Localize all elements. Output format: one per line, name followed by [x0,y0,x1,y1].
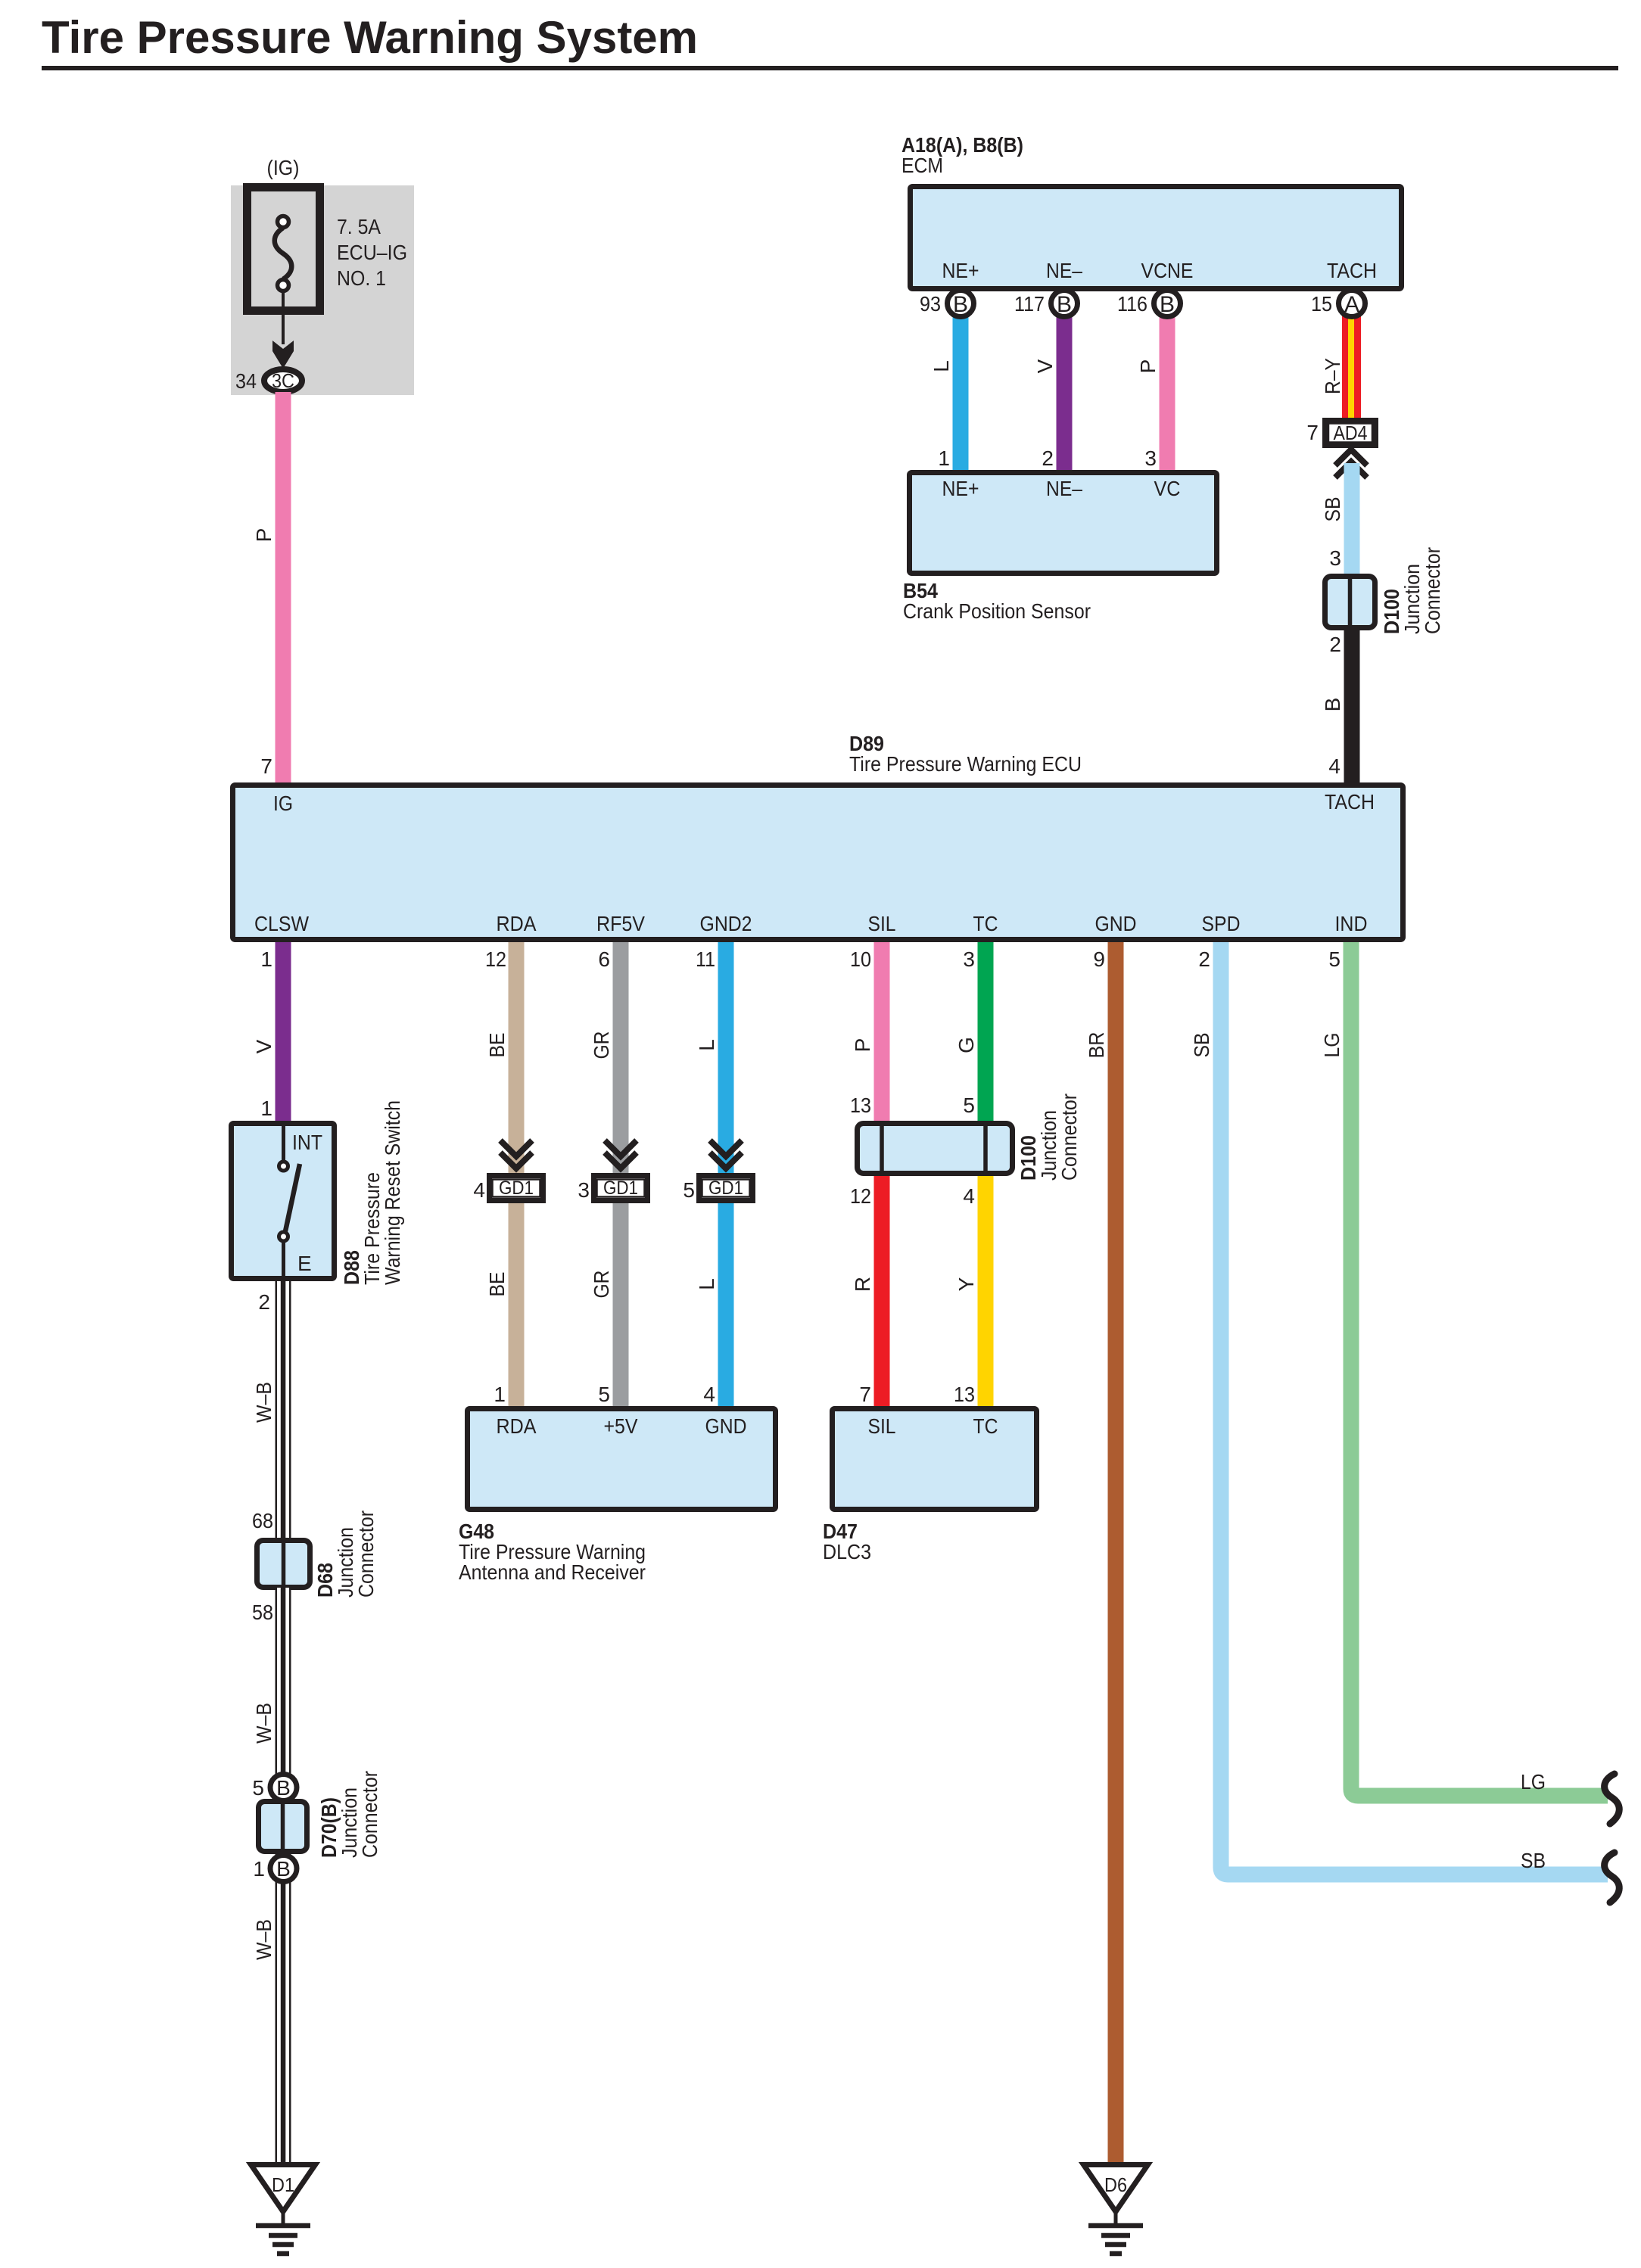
svg-text:W–B: W–B [252,1703,276,1744]
svg-text:11: 11 [696,947,715,971]
svg-text:1: 1 [938,446,950,470]
arrow into 3C [272,341,294,369]
svg-text:68: 68 [252,1509,273,1532]
svg-text:1: 1 [260,1097,272,1120]
svg-text:R: R [851,1277,874,1292]
svg-text:GND: GND [1095,912,1137,935]
svg-text:2: 2 [1198,947,1210,971]
fuse 7.5A ECU-IG NO.1 body [248,188,320,311]
wire BE from D89 RDA to G48 [509,938,525,1409]
wire R-Y from ECM TACH to AD4 [1342,303,1361,419]
svg-text:6: 6 [598,947,610,971]
wire V from D89 CLSW to D88 [276,938,291,1124]
svg-text:4: 4 [703,1383,715,1406]
svg-text:NE+: NE+ [942,477,979,500]
svg-text:SB: SB [1190,1033,1213,1058]
wire R from D100 to D47 SIL [874,1173,890,1409]
svg-text:TC: TC [973,1414,998,1438]
svg-text:CLSW: CLSW [254,912,310,935]
svg-text:P: P [851,1038,874,1053]
svg-text:2: 2 [1329,633,1341,656]
svg-text:SIL: SIL [868,1414,896,1438]
svg-text:IND: IND [1335,912,1368,935]
svg-text:B: B [276,1857,291,1881]
wire P from 3C to D89 pin 7 [276,392,291,787]
svg-text:V: V [1033,359,1057,373]
wire BR from D89 GND to D6 [1108,938,1124,2165]
wire from fuse to connector 3C [282,291,285,345]
junction arrows to GD1 (RF5V) [605,1140,637,1156]
fuse element terminals [278,216,289,228]
wire Y from D100 to D47 TC [978,1173,994,1409]
wire SB from D89 SPD to right edge [1221,938,1608,1874]
svg-text:RF5V: RF5V [596,912,645,935]
svg-text:3C: 3C [272,369,294,392]
switch contact E [279,1232,288,1241]
svg-text:P: P [1136,359,1160,374]
wire B from D100 to D89 TACH [1344,628,1360,787]
svg-text:ECU–IG: ECU–IG [337,241,407,264]
svg-text:3: 3 [1144,446,1157,470]
svg-text:TC: TC [973,912,998,935]
svg-text:B: B [276,1776,291,1800]
svg-text:VCNE: VCNE [1141,259,1194,282]
svg-text:L: L [695,1039,718,1051]
svg-text:INT: INT [292,1131,322,1154]
svg-text:4: 4 [473,1178,485,1202]
svg-text:1: 1 [253,1857,265,1881]
svg-text:58: 58 [252,1601,273,1624]
svg-text:3: 3 [578,1178,590,1202]
wire LG from D89 IND to right edge [1351,938,1608,1796]
svg-text:GND2: GND2 [700,912,752,935]
svg-text:4: 4 [963,1184,975,1208]
svg-text:7: 7 [260,754,272,778]
svg-text:GND: GND [705,1414,747,1438]
svg-text:W–B: W–B [252,1919,276,1960]
svg-text:12: 12 [485,947,506,971]
svg-text:BE: BE [485,1033,509,1058]
svg-text:NE–: NE– [1046,477,1082,500]
svg-text:NE+: NE+ [942,259,979,282]
svg-text:IG: IG [273,792,293,815]
svg-text:93: 93 [920,292,941,316]
svg-text:L: L [695,1278,718,1290]
svg-text:GR: GR [590,1031,613,1059]
wire W-B from D88 to D68 [276,1281,291,1541]
svg-text:B: B [1160,292,1175,317]
svg-text:3: 3 [1329,546,1341,570]
svg-text:(IG): (IG) [267,156,300,179]
wire W-B from D68 to D1 [276,1588,291,2165]
svg-text:SIL: SIL [868,912,896,935]
svg-text:B: B [1057,292,1072,317]
wire SB from AD4 to D100 [1344,463,1360,578]
svg-text:13: 13 [850,1094,871,1117]
svg-text:34: 34 [235,369,257,393]
wire L from D89 GND2 to G48 [718,938,734,1409]
svg-text:BE: BE [485,1272,509,1297]
junction arrows to GD1 (GND2) [710,1140,742,1156]
svg-text:B: B [953,292,968,317]
svg-text:RDA: RDA [497,1414,537,1438]
junction connector D100 (lower) [858,1124,1013,1174]
D88 Tire Pressure Warning Reset Switch box [232,1124,335,1279]
svg-text:Connector: Connector [354,1510,378,1598]
B54 Crank Position Sensor box [910,473,1217,574]
D89 Tire Pressure Warning ECU box [233,786,1403,940]
break mark LG [1605,1774,1620,1824]
wire P from D89 SIL to D100 [874,938,890,1124]
svg-text:4: 4 [1328,754,1341,778]
svg-text:LG: LG [1320,1033,1344,1058]
svg-text:P: P [252,528,276,543]
svg-text:13: 13 [954,1383,975,1406]
splice GD1 (RF5V) [594,1176,648,1201]
svg-text:Y: Y [954,1277,978,1291]
svg-text:W–B: W–B [252,1382,276,1423]
svg-text:DLC3: DLC3 [823,1540,871,1563]
svg-text:12: 12 [850,1184,871,1208]
svg-text:VC: VC [1154,477,1181,500]
svg-text:L: L [929,360,953,372]
svg-text:BR: BR [1085,1032,1108,1059]
splice GD1 (GND2) [699,1176,753,1201]
svg-text:5: 5 [1328,947,1341,971]
svg-text:5: 5 [598,1383,610,1406]
svg-text:SB: SB [1521,1849,1546,1872]
break mark SB [1605,1853,1620,1902]
svg-text:Tire Pressure Warning ECU: Tire Pressure Warning ECU [849,752,1082,776]
ground D6 [1084,2165,1148,2254]
switch contact INT [282,1123,285,1160]
svg-text:TACH: TACH [1327,259,1377,282]
ECM box [911,187,1402,289]
junction connector D100 (upper) [1325,577,1375,628]
svg-text:Warning Reset Switch: Warning Reset Switch [381,1100,404,1285]
wire V from ECM NE- to B54 [1057,303,1073,473]
svg-text:5: 5 [963,1094,975,1117]
connector 3C oval [264,369,302,392]
svg-text:LG: LG [1521,1770,1546,1794]
G48 Tire Pressure Warning Antenna and Receiver box [468,1409,776,1510]
connector AD4 [1325,421,1375,445]
splice GD1 (RDA) [490,1176,543,1201]
svg-text:D1: D1 [272,2173,294,2196]
svg-text:1: 1 [260,947,272,971]
svg-text:AD4: AD4 [1334,422,1368,444]
svg-text:1: 1 [494,1383,506,1406]
svg-text:TACH: TACH [1325,790,1375,814]
svg-text:GR: GR [590,1271,613,1299]
svg-text:7: 7 [1306,421,1319,444]
wire GR from D89 RF5V to G48 [613,938,629,1409]
svg-text:SB: SB [1321,497,1344,522]
junction arrows to GD1 (RDA) [500,1140,532,1156]
svg-text:+5V: +5V [604,1414,638,1438]
switch blade [285,1164,300,1231]
svg-text:GD1: GD1 [499,1178,534,1199]
svg-text:Tire Pressure Warning System: Tire Pressure Warning System [42,12,698,63]
svg-text:3: 3 [963,947,975,971]
title: Tire Pressure Warning System [42,12,1618,70]
svg-text:Connector: Connector [1057,1094,1081,1181]
svg-text:NE–: NE– [1046,259,1082,282]
svg-text:116: 116 [1117,292,1147,316]
svg-text:A: A [1344,292,1359,317]
fuse block background [231,185,414,395]
svg-text:15: 15 [1311,292,1332,316]
svg-text:7: 7 [859,1383,871,1406]
svg-text:Connector: Connector [1421,547,1444,634]
svg-text:NO. 1: NO. 1 [337,266,386,290]
svg-text:ECM: ECM [901,154,943,177]
svg-text:Crank Position Sensor: Crank Position Sensor [903,599,1091,623]
wire L from ECM NE+ to B54 [953,303,969,473]
svg-text:9: 9 [1093,947,1105,971]
svg-text:V: V [252,1039,276,1053]
svg-text:GD1: GD1 [708,1178,743,1199]
svg-text:GD1: GD1 [603,1178,638,1199]
wire G from D89 TC to D100 [978,938,994,1124]
fuse element wire [275,228,292,279]
wire P from ECM VCNE to B54 [1160,303,1175,473]
D47 DLC3 box [833,1409,1037,1510]
junction arrows to AD4 [1335,450,1367,465]
junction connector D68 [257,1541,310,1588]
svg-text:2: 2 [1042,446,1054,470]
svg-text:2: 2 [258,1290,270,1314]
junction connector D70(B) [259,1802,307,1852]
svg-text:G: G [954,1037,978,1053]
svg-text:SPD: SPD [1202,912,1241,935]
svg-text:117: 117 [1014,292,1045,316]
svg-text:5: 5 [683,1178,695,1202]
svg-text:RDA: RDA [497,912,537,935]
svg-text:E: E [297,1252,312,1275]
svg-text:Antenna and Receiver: Antenna and Receiver [459,1560,646,1584]
ground D1 [251,2165,316,2254]
svg-text:5: 5 [252,1776,264,1800]
svg-text:R–Y: R–Y [1321,358,1344,394]
svg-text:10: 10 [850,947,871,971]
svg-text:Connector: Connector [358,1771,381,1858]
svg-text:B: B [1321,698,1344,712]
svg-text:D6: D6 [1104,2173,1127,2196]
svg-text:7. 5A: 7. 5A [337,215,381,238]
